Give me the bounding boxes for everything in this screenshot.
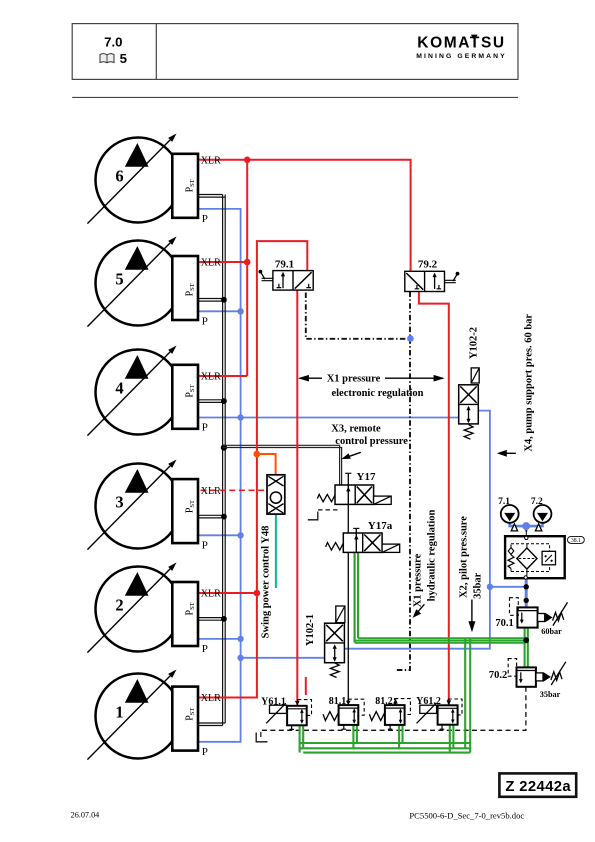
valve Y17a solenoid 2/2 [343, 533, 382, 552]
svg-text:MINING GERMANY: MINING GERMANY [416, 53, 507, 60]
valve 70.1 relief setting [538, 602, 568, 625]
wire: orange tap to Y48 [257, 454, 276, 475]
pressure reducing valve 70.1 [517, 607, 537, 627]
pump 4 regulator block [172, 365, 198, 429]
pump 1 port label PST [185, 708, 197, 721]
svg-text:XLR: XLR [201, 486, 221, 497]
header rule line [72, 96, 518, 98]
label 7.1 [498, 497, 510, 507]
pump 1 port label XLR [201, 693, 221, 704]
svg-text:PC5500-6-D_Sec_7-0_rev5b.doc: PC5500-6-D_Sec_7-0_rev5b.doc [409, 811, 524, 821]
svg-text:electronic regulation: electronic regulation [331, 388, 423, 399]
svg-text:X4, pump support pres. 60 bar: X4, pump support pres. 60 bar [524, 314, 535, 452]
valve Y17a solenoid box [382, 544, 400, 552]
svg-text:79.2: 79.2 [418, 259, 438, 271]
wire: green 70.1 bottom pair [525, 628, 528, 668]
svg-text:3: 3 [115, 493, 123, 512]
wire: red XLR stub pump 2 [198, 592, 257, 594]
gauge 7.2 [534, 505, 552, 523]
pump 1 port label P [202, 746, 208, 758]
svg-text:4: 4 [115, 379, 123, 398]
svg-text:7.1: 7.1 [498, 497, 510, 507]
svg-text:P: P [202, 539, 208, 551]
svg-text:X3, remote: X3, remote [331, 423, 381, 434]
svg-text:38.1: 38.1 [571, 538, 581, 544]
pump 5 regulator block [172, 256, 198, 320]
dashed pilot box 81.2 [395, 699, 411, 715]
valve Y102-1 pressure reducing [325, 606, 345, 663]
gauge 7.1 [501, 505, 519, 523]
ground: tank symbol at drain end [256, 732, 267, 742]
filter pressure switch [542, 551, 555, 565]
wire: blue branch bus to Y102-1 left port [241, 657, 325, 659]
junction: blue dot P4 [237, 414, 243, 420]
junction: blue dot P2 [237, 636, 243, 642]
svg-text:60bar: 60bar [541, 627, 562, 636]
annotation X4 arrow [497, 450, 516, 457]
pump 2 variable displacement [87, 563, 180, 653]
wire: green drop Y61.1 [300, 725, 304, 752]
junction: blue dot branch [237, 655, 243, 661]
annotation X3 arrow [341, 452, 361, 459]
valve 79.1 3/2 way [273, 271, 313, 291]
wire: red net XLR p6 top line to 79.2 [198, 160, 411, 271]
check valve below 7.1 [511, 524, 517, 531]
annotation X1 electronic double arrow [298, 375, 445, 382]
svg-text:KOMATSU: KOMATSU [417, 35, 505, 52]
valve Y17 solenoid box [374, 496, 392, 504]
svg-text:XLR: XLR [201, 589, 221, 600]
header book icon [100, 54, 114, 63]
junction: blue dot on dash-dot crossing [407, 335, 414, 342]
pump 3 regulator block [172, 479, 198, 543]
svg-text:35bar: 35bar [540, 690, 561, 699]
pump 3 port label PST [185, 500, 197, 513]
filter dashed pilot connections [511, 544, 550, 576]
pump 6 port label PST [185, 179, 197, 192]
wire: black feed stub Y17a [353, 528, 359, 552]
label Y61.2 [416, 696, 441, 707]
wire: red bus A vertical [246, 160, 248, 376]
label 35bar [540, 690, 561, 699]
pump 6 port label P [202, 213, 208, 225]
footer filename [409, 811, 524, 821]
filter element diamond [517, 548, 537, 569]
label 60bar [541, 627, 562, 636]
valve Y17 solenoid 2/2 [335, 485, 374, 504]
junction: black dot PST X3 tap [221, 445, 227, 451]
filter bypass relief [508, 545, 514, 572]
annotation X2 arrow [468, 600, 475, 633]
svg-text:P: P [202, 315, 208, 327]
wire: green drop Y61.2 [450, 725, 454, 753]
wire: dashed drain line from 70.2 to tank [259, 687, 526, 731]
header page count 5 [120, 51, 127, 66]
label 81.1 [329, 696, 347, 707]
dashed pilot box Y61.2 [448, 699, 462, 715]
wire: blue filter inlet stub [525, 526, 528, 531]
svg-text:79.1: 79.1 [275, 259, 294, 271]
wire: PST stub pump 6 [198, 195, 225, 198]
filter tag 38.1 [568, 536, 585, 544]
svg-text:Y61.1: Y61.1 [261, 696, 286, 707]
svg-text:7.0: 7.0 [104, 34, 122, 49]
annotation text X1 pressure electronic regulation [327, 374, 424, 400]
wire: red 79.1 output down to Y61.1 [296, 290, 298, 706]
valve Y17 spring [317, 494, 335, 501]
wire: red XLR stub pump 5 [198, 261, 247, 263]
valve Y102-2 spring [464, 425, 473, 440]
wire: green drop 81.1 [353, 725, 357, 748]
wire: dashed drain Y17 [308, 510, 338, 520]
junction: red dot p5 XLR [244, 259, 251, 266]
wire: PST stub pump 5 [198, 299, 226, 302]
svg-text:7.2: 7.2 [531, 497, 543, 507]
label Y17 [357, 471, 376, 483]
junction: red dot p6 XLR [244, 157, 251, 164]
svg-text:70.1: 70.1 [495, 618, 513, 629]
label Y17a [368, 520, 393, 532]
pump 3 port label P [202, 539, 208, 551]
valve Y102-1 spring [330, 663, 339, 678]
svg-text:81.2: 81.2 [375, 696, 393, 707]
wire: X3 remote control double line to Y17 [223, 445, 342, 485]
annotation text X3 remote control pressure [331, 423, 408, 447]
label 7.2 [531, 497, 543, 507]
header box [72, 24, 518, 80]
label Y102-2 [469, 327, 480, 359]
label 70.1 [495, 618, 513, 629]
valve 79.1 manual lever [259, 270, 273, 281]
junction: black dot PST p4 [221, 398, 227, 404]
svg-text:control pressure: control pressure [335, 436, 408, 447]
svg-text:Y17a: Y17a [368, 520, 393, 532]
junction: blue dot check valves [522, 522, 530, 530]
svg-text:XLR: XLR [201, 372, 221, 383]
pump 5 port label PST [185, 283, 197, 296]
wire: thin black filter top connector [525, 529, 527, 537]
dashed pilot box 81.1 [348, 699, 364, 715]
pump 2 port label XLR [201, 589, 221, 600]
svg-text:2: 2 [115, 596, 123, 615]
wire: red XLR stub pump 4 [198, 375, 247, 377]
wire: red bus B pump1 XLR up to 79.1 [198, 241, 307, 697]
wire: green lines Y17a outputs down [355, 552, 359, 642]
valve 70.2 relief setting [536, 662, 566, 685]
annotation text X2 pilot pressure 35bar [459, 516, 484, 599]
label Y102-1 [305, 614, 316, 646]
wire: green horizontal band [355, 638, 527, 643]
pump 2 port label P [202, 643, 208, 655]
drawing number box Z 22442a [499, 773, 576, 796]
wire: PST stub pump 1 [198, 723, 225, 726]
wire: green riser pair right [465, 639, 470, 753]
label 79.1 [275, 259, 294, 271]
wire: dash-dot pilot from 79.1 [306, 293, 410, 339]
wire: blue P stub pump 2 [198, 638, 241, 640]
wire: blue link check valves 7.1 7.2 [510, 519, 543, 526]
wire: black stub above 81.2 [393, 699, 398, 705]
svg-text:5: 5 [115, 270, 123, 289]
junction: red dot p2 XLR [254, 590, 261, 597]
svg-text:hydraulic regulation: hydraulic regulation [426, 510, 437, 602]
svg-text:1: 1 [115, 703, 123, 722]
svg-text:35bar: 35bar [472, 572, 483, 599]
svg-text:6: 6 [115, 167, 123, 186]
wire: blue pump P bus with P6 and P1 stubs [198, 209, 241, 742]
junction: black dot filter outlet [524, 584, 529, 589]
wire: blue P stub pump 3 [198, 534, 241, 536]
valve Y17a spring [326, 543, 344, 550]
pump 1 regulator block [172, 687, 198, 751]
check valve below 7.2 [535, 524, 541, 531]
valve 81.2 pressure reducing [385, 705, 405, 729]
filter unit 38.1 box [505, 536, 565, 579]
wire: PST stub pump 4 [198, 400, 226, 403]
wire: blue branch to filter inlet [490, 586, 526, 588]
junction: black dot PST p3 [221, 514, 227, 520]
dashed pilot box 70.1 [510, 598, 519, 616]
footer date [71, 811, 100, 820]
svg-text:70.2: 70.2 [489, 670, 507, 681]
valve Y48 swing power control [267, 475, 285, 514]
wire: blue filter outlet down to 70.1 [525, 579, 528, 607]
junction: blue dot P3 [237, 532, 243, 538]
wire: black feed line through Y17 down to 81.1 [345, 473, 351, 705]
valve Y61.1 proportional reducing [266, 701, 307, 730]
annotation text X4 pump support pressure [524, 314, 535, 452]
pump 4 variable displacement [87, 346, 180, 436]
svg-text:Y61.2: Y61.2 [416, 696, 441, 707]
wire: blue P pump 4 long line to Y102-2 left port [198, 417, 459, 419]
pump 2 regulator block [172, 582, 198, 646]
wire: red dashed XLR pump 3 to Y48 [201, 489, 268, 491]
wire: PST stub pump 2 [198, 618, 226, 621]
pump 6 regulator block [172, 154, 198, 218]
valve 81.2 spring [369, 712, 385, 721]
junction: black dot green band 70.x [523, 637, 529, 643]
svg-text:X1 pressure: X1 pressure [412, 553, 423, 607]
pump 5 variable displacement [87, 237, 180, 327]
KOMATSU logo [417, 35, 505, 52]
svg-text:P: P [202, 746, 208, 758]
junction: blue dot filter branch [487, 584, 493, 590]
wire: PST stub pump 3 [198, 515, 226, 518]
wire: green drop 81.2 [399, 725, 402, 748]
svg-text:XLR: XLR [201, 155, 221, 166]
pump 2 port label PST [185, 602, 197, 615]
svg-text:P: P [202, 213, 208, 225]
wire: blue Y102-1 right port to Y102-2 right port [345, 411, 490, 649]
label Y61.1 [261, 696, 286, 707]
pump 3 port label XLR [201, 486, 221, 497]
pump 5 port label P [202, 315, 208, 327]
wire: red stub segment [305, 677, 307, 695]
label 81.2 [375, 696, 393, 707]
wire: red 79.2 output down to Y61.2 [419, 292, 449, 706]
pump 4 port label XLR [201, 372, 221, 383]
dashed pilot box 70.2 [508, 659, 516, 677]
valve Y61.2 proportional reducing [417, 700, 458, 729]
wire: green bottom rails [300, 743, 471, 753]
dashed pilot box Y61.1 [298, 700, 312, 716]
svg-text:X2, pilot pres.sure: X2, pilot pres.sure [459, 516, 470, 598]
pump 6 variable displacement [87, 134, 180, 224]
header section number 7.0 [104, 34, 122, 49]
pump 4 port label P [202, 422, 208, 434]
svg-text:Y17: Y17 [357, 471, 376, 483]
annotation text Swing power control Y48 [261, 526, 272, 639]
svg-text:XLR: XLR [201, 693, 221, 704]
junction: black dot PST p5 [221, 297, 227, 303]
pump 1 variable displacement [87, 670, 180, 760]
junction: blue dot P5 [237, 308, 243, 314]
svg-text:Z 22442a: Z 22442a [505, 779, 571, 795]
svg-text:81.1: 81.1 [329, 696, 347, 707]
junction: black dot pilot tap [524, 598, 529, 603]
pump 6 port label XLR [201, 155, 221, 166]
pump 4 port label PST [185, 385, 197, 398]
svg-text:X1 pressure: X1 pressure [327, 374, 381, 385]
svg-text:26.07.04: 26.07.04 [71, 811, 100, 820]
svg-text:Y102-1: Y102-1 [305, 614, 316, 646]
valve 79.2 manual lever [445, 272, 460, 283]
valve 81.1 pressure reducing [339, 705, 359, 729]
svg-text:P: P [202, 643, 208, 655]
valve 79.2 3/2 way [405, 271, 445, 291]
svg-text:Y102-2: Y102-2 [469, 327, 480, 359]
valve 81.1 spring [323, 712, 339, 721]
svg-text:P: P [202, 422, 208, 434]
logo subtitle MINING GERMANY [416, 53, 507, 60]
annotation text X1 pressure hydraulic regulation [412, 510, 437, 608]
pump 3 variable displacement [87, 460, 180, 550]
junction: orange dot on red bus [253, 451, 260, 458]
junction: black dot PST p2 [221, 616, 227, 622]
wire: dash-dot pilot from 79.2 down [395, 292, 410, 671]
svg-text:Swing power control Y48: Swing power control Y48 [261, 526, 272, 639]
pump 5 port label XLR [201, 258, 221, 269]
wire: black PST bus double line [223, 195, 226, 726]
wire: teal line from Y48 [275, 514, 277, 588]
valve Y102-2 pressure reducing [459, 368, 480, 424]
pressure reducing valve 70.2 [517, 667, 536, 686]
wire: blue P stub pump 5 [198, 310, 241, 312]
label 79.2 [418, 259, 438, 271]
svg-text:5: 5 [120, 51, 127, 66]
label 70.2 [489, 670, 507, 681]
annotation X1 hydraulic arrow [413, 604, 425, 618]
svg-text:XLR: XLR [201, 258, 221, 269]
